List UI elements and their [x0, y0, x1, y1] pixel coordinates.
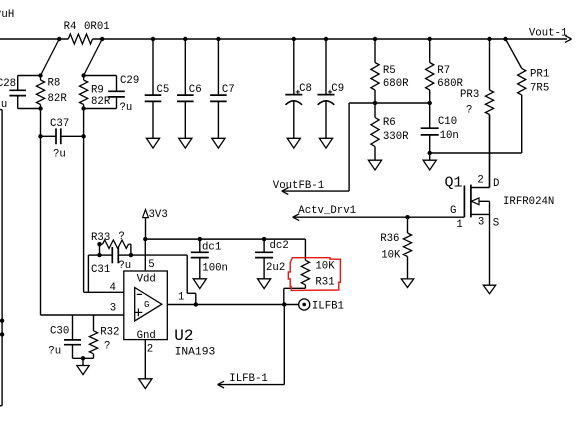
svg-text:?u: ?u [120, 102, 133, 114]
svg-text:1: 1 [456, 219, 462, 231]
svg-text:R33: R33 [91, 232, 110, 244]
svg-text:10K: 10K [381, 249, 401, 261]
svg-text:INA193: INA193 [175, 346, 216, 358]
svg-text:G: G [144, 300, 149, 310]
svg-text:330R: 330R [383, 131, 409, 143]
svg-text:3V3: 3V3 [149, 209, 168, 221]
svg-text:?u: ?u [53, 148, 66, 160]
svg-text:PR3: PR3 [460, 89, 479, 101]
svg-text:?: ? [118, 231, 124, 243]
svg-text:3: 3 [110, 302, 116, 314]
svg-text:C37: C37 [50, 118, 69, 130]
svg-text:C9: C9 [331, 83, 344, 95]
svg-text:680R: 680R [383, 78, 409, 90]
svg-text:7R5: 7R5 [530, 82, 549, 94]
svg-text:5: 5 [148, 259, 154, 271]
svg-text:2: 2 [147, 343, 153, 355]
svg-text:C8: C8 [299, 83, 312, 95]
svg-text:R9: R9 [91, 84, 104, 96]
svg-text:G: G [450, 205, 456, 217]
svg-text:100n: 100n [202, 263, 228, 275]
svg-text:?: ? [466, 105, 472, 117]
svg-text:2u2: 2u2 [266, 262, 285, 274]
svg-text:10n: 10n [440, 130, 459, 142]
svg-text:Q1: Q1 [445, 174, 463, 191]
svg-text:C10: C10 [438, 116, 457, 128]
svg-text:?: ? [104, 340, 110, 352]
svg-text:R5: R5 [383, 65, 396, 77]
svg-text:U2: U2 [174, 327, 193, 345]
svg-text:VoutFB-1: VoutFB-1 [273, 180, 324, 192]
svg-text:R4: R4 [64, 21, 77, 33]
svg-text:0R01: 0R01 [84, 21, 110, 33]
svg-text:dc1: dc1 [202, 242, 221, 254]
svg-text:C29: C29 [120, 75, 139, 87]
svg-text:R31: R31 [315, 276, 334, 288]
svg-text:C5: C5 [157, 84, 170, 96]
svg-text:Vout-1: Vout-1 [529, 28, 567, 40]
svg-text:C6: C6 [189, 84, 202, 96]
svg-text:R7: R7 [437, 65, 450, 77]
svg-text:ILFB1: ILFB1 [312, 301, 344, 313]
svg-text:C28: C28 [0, 78, 16, 90]
svg-text:D: D [493, 178, 499, 190]
svg-text:10K: 10K [315, 261, 335, 273]
svg-text:?uH: ?uH [0, 9, 14, 21]
svg-text:R8: R8 [48, 77, 61, 89]
svg-text:R36: R36 [380, 233, 399, 245]
svg-text:4: 4 [110, 282, 116, 294]
svg-text:82R: 82R [91, 96, 111, 108]
svg-text:PR1: PR1 [530, 69, 549, 81]
svg-text:dc2: dc2 [270, 240, 289, 252]
svg-text:ILFB-1: ILFB-1 [229, 373, 267, 385]
svg-text:1: 1 [178, 292, 184, 304]
svg-text:C31: C31 [91, 264, 110, 276]
svg-text:Vdd: Vdd [137, 273, 156, 285]
svg-text:R6: R6 [383, 117, 396, 129]
svg-text:C30: C30 [50, 326, 69, 338]
svg-text:?u: ?u [118, 260, 131, 272]
svg-text:Actv_Drv1: Actv_Drv1 [298, 205, 356, 217]
svg-text:?u: ?u [48, 346, 61, 358]
svg-text:R32: R32 [100, 326, 119, 338]
svg-text:IRFR024N: IRFR024N [503, 196, 554, 208]
svg-text:82R: 82R [48, 93, 68, 105]
svg-text:Gnd: Gnd [137, 330, 156, 342]
svg-text:S: S [493, 217, 499, 229]
svg-text:C7: C7 [222, 84, 235, 96]
svg-text:3: 3 [478, 217, 484, 229]
svg-text:2: 2 [477, 175, 483, 187]
